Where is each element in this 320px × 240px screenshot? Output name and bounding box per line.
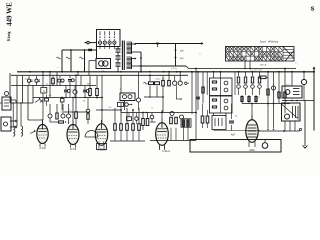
wire vrow2 <box>56 72 58 86</box>
labels row mid <box>155 79 165 81</box>
svg-text:mB t A: mB t A <box>260 63 267 66</box>
wire vn3 <box>202 72 204 103</box>
wire vr <box>214 130 261 132</box>
capacitor C3d <box>83 86 89 98</box>
wire bottom v <box>251 140 253 143</box>
tube V3 ABC1 <box>95 120 107 152</box>
capacitor C1 <box>27 76 32 86</box>
wire h6 <box>150 126 196 140</box>
label 4uF <box>231 135 236 137</box>
field coil <box>291 71 307 101</box>
svg-text:S: S <box>311 7 315 13</box>
svg-text:König: König <box>7 31 11 41</box>
label r14 <box>295 63 297 65</box>
wire h5 <box>121 112 197 114</box>
capacitor C9 <box>61 104 65 118</box>
shield arc <box>85 131 98 138</box>
antenna terminal box <box>0 92 16 111</box>
label r1 <box>25 79 29 81</box>
label r9 <box>151 108 153 110</box>
smoothing box <box>212 116 226 130</box>
antenna coil L1 <box>13 102 15 136</box>
line end <box>185 82 189 84</box>
node dots mid <box>140 65 151 76</box>
wire mid h2 <box>96 103 121 113</box>
speaker transformer <box>282 86 314 101</box>
label r3 <box>57 78 60 80</box>
squiggle mid <box>144 82 148 84</box>
resistor R21 <box>132 109 135 130</box>
label V1 pin <box>0 0 1 1</box>
grid lead V4 <box>161 110 163 119</box>
svg-text:t.l · e.b · 0,5: t.l · e.b · 0,5 <box>250 68 262 71</box>
tube V4 AL4 <box>156 119 170 153</box>
HT arrow <box>201 42 203 45</box>
label r15 <box>171 68 177 70</box>
transformer T1 secondary lower <box>127 57 140 69</box>
wire vc <box>22 76 24 103</box>
resistor R22 <box>138 108 141 130</box>
tone network <box>170 112 191 128</box>
grid cap C4 <box>101 75 103 123</box>
wire vn2 <box>196 71 200 110</box>
table feed wires <box>244 61 250 69</box>
transformer T1 core <box>122 41 124 71</box>
svg-text:m: m <box>43 90 45 93</box>
label r20 <box>257 97 261 99</box>
resistor R6 <box>148 79 154 85</box>
voltage selector S1 <box>97 30 121 50</box>
wire vi <box>163 85 177 112</box>
wire vn4 <box>206 72 208 95</box>
tuning gang <box>118 101 133 107</box>
output transformer <box>282 103 301 121</box>
resistor R9 <box>168 71 171 86</box>
capacitor C2 <box>35 76 40 86</box>
wire vl <box>278 71 280 104</box>
mains wire upper <box>62 49 97 51</box>
transformer T1 primary <box>116 47 121 72</box>
bus B+ <box>17 71 315 73</box>
wire vd <box>28 86 43 121</box>
tube V2 AF3 <box>67 121 79 151</box>
padder C2d <box>61 97 65 110</box>
IF transformer 2 <box>210 78 233 96</box>
mains drop 3 <box>80 49 86 72</box>
svg-text:a,b: a,b <box>180 49 184 53</box>
wire vh <box>156 86 158 97</box>
cathode network V2 <box>59 121 67 123</box>
cathode box V3 <box>97 142 107 150</box>
resistor R7 <box>155 82 160 85</box>
label r5 <box>87 83 90 85</box>
trimmer C3c <box>73 86 77 98</box>
resistor R10 <box>237 71 241 95</box>
label r8 <box>109 107 113 109</box>
wire h right <box>242 103 290 105</box>
coupling cap C4b <box>150 113 154 123</box>
osc trimmer <box>124 72 141 110</box>
band switch <box>10 98 43 103</box>
resistor R1 <box>52 76 55 86</box>
svg-text:A F3: A F3 <box>70 147 77 151</box>
title text 449 WE <box>6 2 14 41</box>
resistor R20 <box>126 108 129 130</box>
IF can 1 <box>120 75 135 110</box>
wire vb <box>16 76 18 126</box>
table caption <box>260 40 279 43</box>
mains drop 4 <box>96 47 98 60</box>
pickup connector <box>89 59 111 76</box>
wire vj <box>267 71 269 131</box>
trimmer C5 <box>173 76 177 85</box>
fuse F1 <box>156 43 160 47</box>
tube V1 AK2 <box>37 121 48 150</box>
label r11 <box>195 111 197 114</box>
wire row3 <box>144 96 182 100</box>
antenna coil L2 <box>20 102 22 136</box>
label r18 <box>61 111 65 113</box>
resistor R4 <box>89 76 92 98</box>
resistor R11 <box>244 72 248 95</box>
coupling cap C2c <box>45 95 49 107</box>
wire h4 <box>110 130 145 141</box>
resistor R5 <box>96 76 99 98</box>
tube V5 AZ1 <box>246 115 258 152</box>
wire vp2 <box>241 95 243 104</box>
label arrow <box>199 52 202 56</box>
page mark S <box>311 7 315 13</box>
capacitor C8 <box>48 104 58 122</box>
bus 2 <box>11 74 188 76</box>
resistor R12b <box>258 72 262 95</box>
wire ve <box>32 86 34 104</box>
wire vp4 <box>255 95 257 104</box>
label r7 <box>83 101 86 103</box>
HT lead wire <box>135 43 202 45</box>
capacitor C3b <box>64 86 70 98</box>
mains drop 2 <box>66 49 72 72</box>
svg-text:a.4,b · 0,1: a.4,b · 0,1 <box>155 79 165 81</box>
resistor R8 <box>162 76 165 86</box>
wire vq <box>195 68 197 141</box>
label r19 <box>41 120 44 122</box>
voltage table <box>226 47 295 62</box>
svg-text:0,1 2a: 0,1 2a <box>171 68 177 70</box>
wire vrow3 <box>70 76 81 98</box>
ground arrow <box>299 101 307 150</box>
dial lamp box <box>190 140 281 153</box>
label r12 <box>235 116 238 118</box>
mains drop 1 <box>57 50 63 72</box>
capacitor C2b <box>58 76 64 86</box>
capacitor C10 <box>67 104 71 124</box>
resistor R18 <box>114 108 117 130</box>
row2 dots <box>65 97 85 98</box>
wire vrow4 <box>77 71 79 76</box>
label r10 <box>127 122 130 124</box>
mains plug <box>85 41 97 44</box>
wire vrow1 <box>49 71 51 98</box>
wire h3 <box>64 109 90 112</box>
grid lead V1 <box>30 120 43 134</box>
capacitor C11 <box>229 104 234 131</box>
svg-text:449 WE: 449 WE <box>6 2 14 26</box>
svg-text:4μF: 4μF <box>231 135 236 137</box>
IF transformer 3 <box>210 96 233 113</box>
wire h out <box>252 121 300 132</box>
svg-text:1M: 1M <box>87 83 90 85</box>
label r2 <box>46 84 49 86</box>
label r4 <box>72 89 76 91</box>
capacitor C7 <box>260 76 268 79</box>
heater bus <box>139 66 296 69</box>
table caption 2 <box>260 63 267 66</box>
label r17 <box>119 89 121 91</box>
osc pad <box>127 113 139 125</box>
capacitor C3 <box>68 76 74 86</box>
wire row h97 <box>33 97 102 99</box>
grid lead V3 <box>101 123 103 126</box>
label r6 <box>49 95 53 97</box>
resistor R16 <box>56 104 58 119</box>
label r16 <box>57 67 59 70</box>
svg-text:Spoel · Wikkeling: Spoel · Wikkeling <box>260 40 279 43</box>
labels row right <box>250 68 262 71</box>
wire va <box>9 73 11 103</box>
screen cap C10b <box>86 98 90 125</box>
transformer feed <box>140 52 142 73</box>
node tap a <box>175 44 185 67</box>
label r13 <box>286 85 291 87</box>
resistor R19 <box>120 109 123 130</box>
wire can verticals <box>213 71 226 116</box>
wire vn1 <box>191 71 193 114</box>
wire row h85 <box>11 85 96 87</box>
wire vp1 <box>234 72 236 95</box>
pickup terminal box <box>1 117 17 131</box>
wire vm <box>284 68 286 113</box>
wire vg <box>149 75 150 97</box>
trimmer C6 <box>178 71 182 85</box>
filter caps <box>201 104 209 129</box>
resistor R12 <box>251 71 255 95</box>
grid lead V2 <box>72 97 74 121</box>
svg-text:AZ1: AZ1 <box>249 148 255 152</box>
B+ arrow <box>313 67 316 131</box>
wire vk <box>272 72 276 131</box>
svg-text:↔: ↔ <box>199 52 202 56</box>
coupling caps V4 <box>142 112 156 130</box>
anode lead V5 <box>251 103 253 120</box>
label box 1 <box>41 71 47 120</box>
wire vp3 <box>248 95 250 104</box>
svg-text:1 AL4: 1 AL4 <box>162 149 170 153</box>
svg-text:A K2: A K2 <box>39 146 46 150</box>
transformer T1 secondary upper <box>127 42 142 54</box>
screen resistor R17 <box>75 74 78 126</box>
svg-text:l.Pu: l.Pu <box>101 71 106 74</box>
